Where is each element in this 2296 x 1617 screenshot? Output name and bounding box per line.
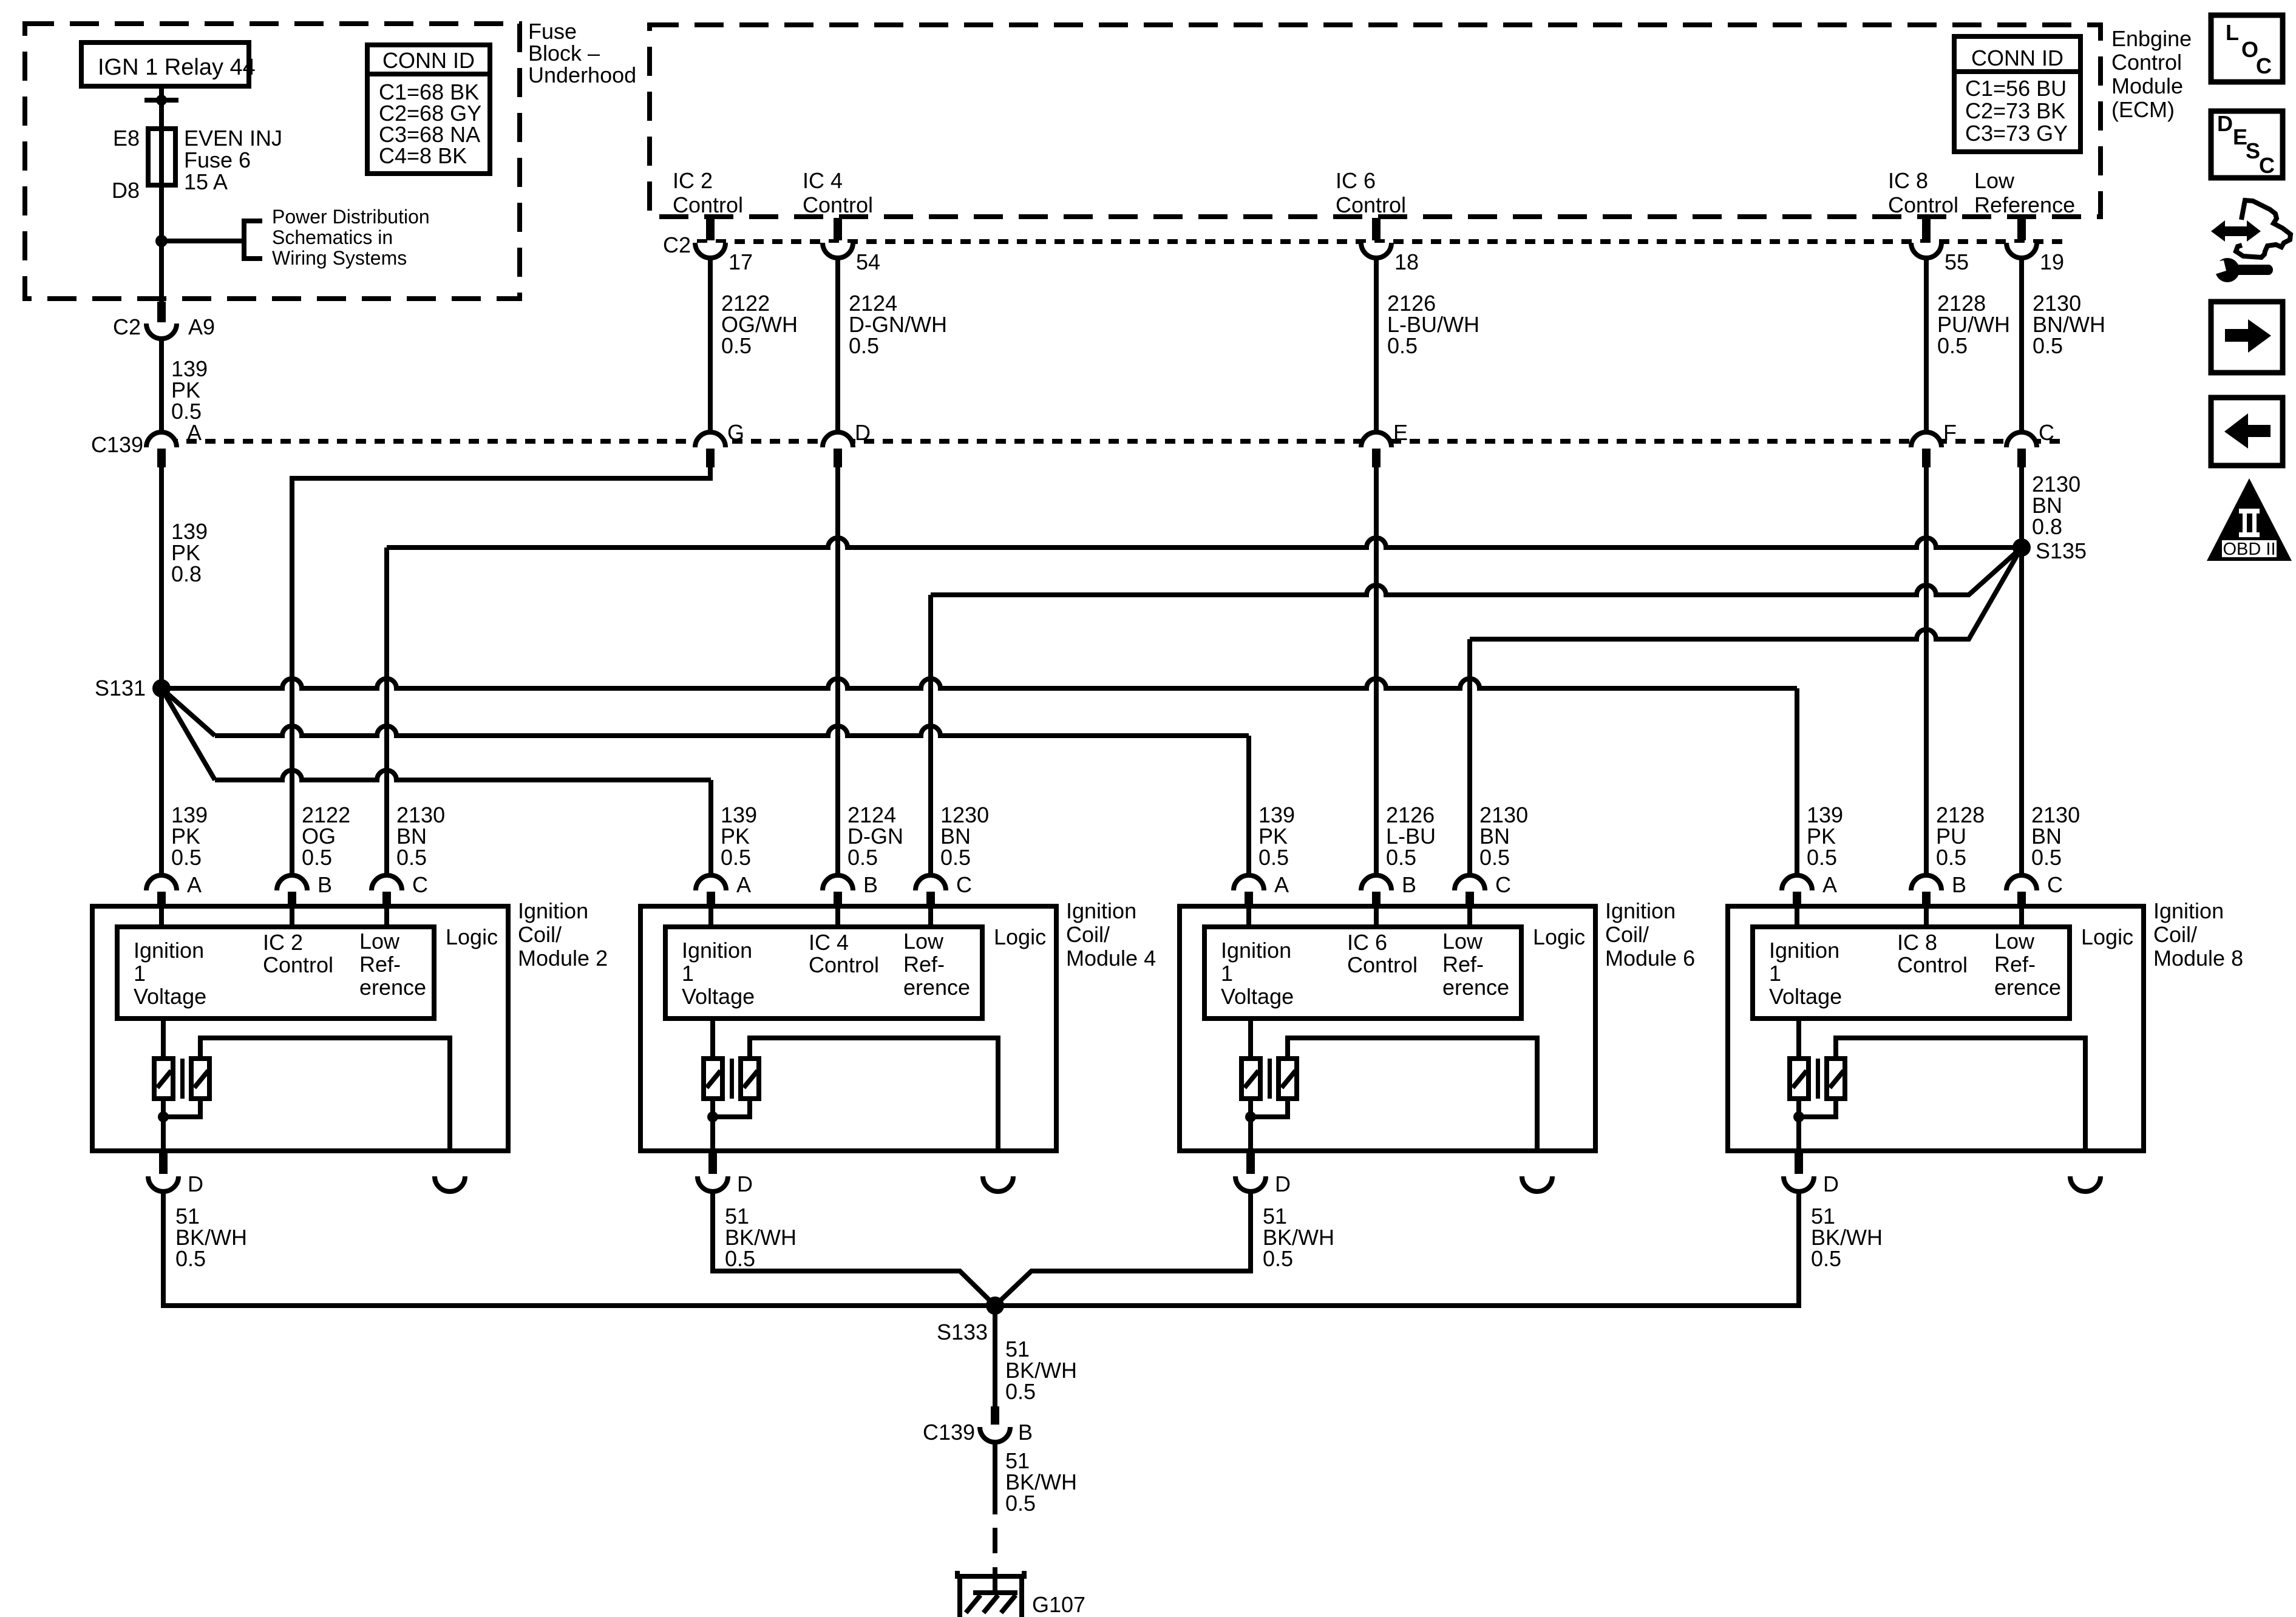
svg-text:Control: Control [1897,952,1968,977]
wire label 139 PK 0.5 at module 6 pin A [1258,802,1295,870]
wire 51 BK/WH (module 2 D / module 8 D bus to S133) [163,1191,1799,1306]
bracket: power distribution reference [244,221,262,259]
svg-text:Control: Control [1347,952,1418,977]
svg-text:Ignition: Ignition [1605,898,1676,923]
module 2 pin D [148,1153,203,1196]
module 6 pin C [1455,872,1511,906]
label: Ignition Coil/Module 2 [518,898,608,971]
wire: bar through fuse to junction [159,100,164,302]
wire 2130 BN (S135 to module 6 pin C) [1470,547,2022,876]
svg-text:B: B [1018,1420,1033,1445]
svg-text:0.5: 0.5 [1387,333,1418,358]
ECM connector C2 pin 54 [823,218,880,274]
wire label 2126 L-BU 0.5 at module 6 pin B [1386,802,1436,870]
svg-text:S133: S133 [937,1320,988,1344]
module 6 logic box [1204,927,1521,1019]
svg-text:B: B [1952,872,1966,897]
svg-text:IC 8: IC 8 [1897,930,1937,955]
svg-text:Underhood: Underhood [528,63,636,87]
module 4 coil secondary winding [741,1059,759,1099]
svg-text:Ignition: Ignition [1769,938,1839,963]
wire label 139 PK 0.5 at module 2 pin A [171,802,208,870]
ECM (Engine Control Module) dashed box [650,25,2101,217]
svg-text:0.5: 0.5 [302,845,332,870]
svg-text:Control: Control [1336,192,1406,217]
module 6 pin B [1361,872,1416,906]
wire 51 BK/WH (S133 to C139 B) [995,1306,1077,1406]
connector C139 pin G [695,420,744,467]
svg-text:Module 4: Module 4 [1066,946,1156,971]
svg-text:Voltage: Voltage [1769,984,1842,1009]
svg-text:Low: Low [359,929,400,954]
svg-text:D: D [855,420,871,445]
module 6 coil primary winding [1241,1019,1260,1099]
svg-text:C4=8 BK: C4=8 BK [379,143,467,168]
svg-text:D: D [737,1171,753,1196]
svg-text:B: B [863,872,878,897]
module 8 coil common junction [1793,1099,1836,1151]
fuse block underhood (dashed box) [25,24,520,299]
svg-text:0.5: 0.5 [1263,1246,1293,1271]
module 2 secondary return wire [200,1038,450,1151]
svg-text:0.5: 0.5 [175,1246,206,1271]
svg-text:0.5: 0.5 [721,333,752,358]
wire: junction to bracket [161,239,243,243]
svg-text:CONN ID: CONN ID [382,48,475,73]
svg-text:C: C [412,872,428,897]
svg-text:0.5: 0.5 [849,333,879,358]
connector row C2 (ECM) dotted line [663,232,2064,257]
svg-text:Enbgine: Enbgine [2111,26,2192,51]
svg-text:C: C [2259,153,2275,178]
svg-text:IC 2: IC 2 [263,930,303,955]
svg-text:17: 17 [729,249,753,274]
module 4 secondary output terminal [983,1176,1013,1192]
svg-text:Control: Control [803,192,873,217]
svg-text:A: A [187,420,202,445]
wire 2128 PU/WH 0.5 (ECM to C139) [1926,257,2010,433]
module 2 pin A [146,872,202,906]
svg-text:Ref-: Ref- [1442,952,1484,977]
wire label 139 PK 0.5 at module 4 pin A [721,802,757,870]
connector C139 pin C [2006,420,2054,467]
ignition coil module 2 (outer box) [92,906,508,1151]
icon: back arrow box [2211,398,2283,466]
ECM connector C2 pin 17 [695,218,753,274]
svg-text:1: 1 [134,961,146,986]
svg-text:Reference: Reference [1974,192,2075,217]
svg-text:IC 6: IC 6 [1336,168,1376,193]
svg-text:1: 1 [1769,961,1781,986]
module 2 coil primary winding [154,1019,173,1099]
splice S133 [937,1297,1004,1344]
svg-text:Logic: Logic [2081,924,2133,949]
svg-text:S135: S135 [2036,538,2087,563]
svg-text:Coil/: Coil/ [1066,922,1110,947]
svg-text:A: A [736,872,751,897]
wire 139 PK (S131 to module 6 pin A) [161,688,1249,876]
junction node (power distribution tap) [155,235,168,247]
wire 51 BK/WH (module 6 D to S133) [995,1191,1251,1306]
svg-text:(ECM): (ECM) [2111,97,2175,122]
svg-text:EVEN INJ: EVEN INJ [184,126,282,151]
svg-text:C3=73 GY: C3=73 GY [1965,121,2068,146]
wire 139 PK (S131 to module 4 pin A) [161,688,711,876]
ignition coil module 4 (outer box) [640,906,1056,1151]
connector C139 pin A [146,420,202,467]
label: Ignition Coil/Module 4 [1066,898,1156,971]
module 8 internal pin feed wires [1797,906,2022,927]
label: Ignition Coil/Module 6 [1605,898,1695,971]
svg-text:erence: erence [903,975,970,1000]
wire label 2122 OG 0.5 at module 2 pin B [302,802,350,870]
module 8 secondary return wire [1836,1038,2085,1151]
module 6 coil common junction [1245,1099,1288,1151]
wire 2130 BN (S135 to module 4 pin C) [931,547,2022,876]
svg-text:Voltage: Voltage [134,984,206,1009]
svg-text:0.5: 0.5 [1258,845,1289,870]
svg-text:0.5: 0.5 [940,845,971,870]
svg-text:Module 8: Module 8 [2153,946,2243,971]
svg-text:Fuse: Fuse [528,19,577,44]
svg-text:L: L [2226,20,2239,45]
svg-text:IC 8: IC 8 [1888,168,1928,193]
svg-text:IGN 1 Relay 44: IGN 1 Relay 44 [98,55,256,80]
connector C139 pin D [823,420,871,467]
fuse F6 (EVEN INJ Fuse 6 15 A) [112,126,282,203]
module 8 pin B [1911,872,1966,906]
svg-text:erence: erence [1994,975,2061,1000]
module 4 logic box [665,927,982,1019]
module 2 coil core [180,1059,185,1099]
svg-text:D: D [188,1171,203,1196]
wire 2130 BN (S135 to module 2 pin C) [387,538,2022,876]
connector C139 pin F [1911,420,1957,467]
module 8 pin C [2006,872,2063,906]
svg-text:0.8: 0.8 [171,561,202,586]
svg-text:Module 6: Module 6 [1605,946,1695,971]
connector C139 pin E [1361,420,1408,467]
ECM connector C2 pin 18 [1361,218,1419,274]
svg-text:Voltage: Voltage [682,984,755,1009]
wire 2128 PU (C139 F to module 8 pin B) [1924,467,1929,876]
svg-text:19: 19 [2040,249,2064,274]
icon: OBD II triangle [2207,478,2292,561]
wire 2126 L-BU/WH 0.5 (ECM to C139) [1376,257,1479,433]
svg-text:0.5: 0.5 [1811,1246,1841,1271]
wire label 51 BK/WH 0.5 at module 8 pin D [1811,1204,1883,1271]
svg-text:Ignition: Ignition [1066,898,1136,923]
svg-text:Low: Low [1442,929,1483,954]
module 2 pin C [372,872,428,906]
wire 139 PK 0.5 (fuse block to C139) [161,338,208,433]
module 8 secondary output terminal [2070,1176,2101,1192]
module 2 coil secondary winding [191,1059,209,1099]
svg-text:C1=56 BU: C1=56 BU [1965,76,2067,101]
ignition coil module 6 (outer box) [1180,906,1595,1151]
svg-text:18: 18 [1394,249,1419,274]
wire label 2124 D-GN 0.5 at module 4 pin B [847,802,903,870]
svg-text:S131: S131 [95,676,146,700]
svg-text:Logic: Logic [994,924,1046,949]
module 6 coil core [1268,1059,1272,1099]
svg-text:erence: erence [1442,975,1509,1000]
module 8 coil core [1816,1059,1820,1099]
module 2 internal pin feed wires [161,906,387,927]
svg-text:S: S [2246,138,2260,163]
relay: IGN 1 Relay 44 [81,42,256,86]
svg-text:Module 2: Module 2 [518,946,608,971]
wire 2124 D-GN (C139 D to module 4 pin B) [835,467,840,876]
svg-text:Block –: Block – [528,41,600,66]
module 4 secondary return wire [750,1038,998,1151]
svg-text:0.5: 0.5 [1479,845,1510,870]
ignition coil module 8 (outer box) [1728,906,2144,1151]
svg-text:G107: G107 [1032,1592,1085,1617]
svg-text:Fuse 6: Fuse 6 [184,147,251,172]
wire 2130 BN (C139 C through S135 to module 8 pin C) [2022,467,2080,876]
module 4 coil common junction [707,1099,750,1151]
svg-text:Ref-: Ref- [1994,952,2036,977]
conn id table (ECM) [1954,36,2080,152]
svg-text:D: D [1275,1171,1291,1196]
svg-text:Ignition: Ignition [682,938,752,963]
module 8 coil secondary winding [1827,1059,1845,1099]
module 6 pin D [1235,1153,1291,1196]
module 2 logic box [117,927,434,1019]
svg-text:0.5: 0.5 [1005,1379,1036,1404]
svg-text:0.5: 0.5 [1386,845,1416,870]
svg-text:C139: C139 [923,1420,975,1445]
wire 2122 OG/WH 0.5 (ECM to C139) [710,257,798,433]
wire 2126 L-BU (C139 E to module 6 pin B) [1374,467,1379,876]
svg-text:OBD II: OBD II [2223,540,2275,559]
svg-text:B: B [1402,872,1416,897]
svg-text:Ref-: Ref- [359,952,401,977]
module 6 coil secondary winding [1279,1059,1297,1099]
svg-text:C: C [2256,53,2272,78]
svg-text:Logic: Logic [1533,924,1585,949]
svg-text:E: E [1393,420,1408,445]
svg-text:0.5: 0.5 [2033,333,2063,358]
svg-text:0.5: 0.5 [721,845,751,870]
svg-text:Coil/: Coil/ [518,922,562,947]
wire label 2130 BN 0.5 at module 2 pin C [396,802,445,870]
label: Fuse Block - Underhood [528,19,636,87]
svg-text:1: 1 [682,961,694,986]
svg-text:Coil/: Coil/ [1605,922,1649,947]
svg-text:A: A [187,872,202,897]
conn id table (fuse block) [367,45,490,174]
svg-text:C: C [1495,872,1511,897]
ECM connector C2 pin 55 [1911,218,1969,274]
svg-text:IC 2: IC 2 [673,168,713,193]
wire 139 PK (S131 to module 8 pin A) [161,679,1797,876]
svg-text:F: F [1943,420,1957,445]
svg-text:Schematics in: Schematics in [272,226,393,248]
svg-text:C2=73 BK: C2=73 BK [1965,98,2065,123]
module 2 pin B [277,872,332,906]
module 6 secondary return wire [1288,1038,1537,1151]
svg-text:Low: Low [1974,168,2015,193]
wire label 51 BK/WH 0.5 at module 4 pin D [725,1204,796,1271]
svg-text:0.5: 0.5 [1807,845,1837,870]
wire label 1230 BN 0.5 at module 4 pin C [940,802,989,870]
svg-text:C2: C2 [113,314,141,339]
svg-text:erence: erence [359,975,426,1000]
wire 51 BK/WH (C139 B to G107) [995,1442,1077,1553]
svg-text:A9: A9 [188,314,215,339]
splice S135 [2012,538,2087,563]
icon: service info (double arrow, outline, wrench) [2210,200,2291,282]
svg-text:54: 54 [856,249,880,274]
svg-text:Control: Control [809,952,879,977]
svg-text:IC 4: IC 4 [809,930,849,955]
svg-text:Ignition: Ignition [2153,898,2224,923]
svg-text:IC 6: IC 6 [1347,930,1387,955]
module 4 coil primary winding [704,1019,722,1099]
module 4 pin C [915,872,972,906]
label: Enbgine Control Module (ECM) [2111,26,2192,122]
relay contact bar [144,95,178,106]
module 8 coil primary winding [1790,1019,1809,1099]
module 4 pin B [823,872,878,906]
svg-text:Control: Control [1888,192,1958,217]
svg-text:0.5: 0.5 [396,845,427,870]
svg-text:C: C [2039,420,2054,445]
svg-text:Ignition: Ignition [134,938,204,963]
wire label 51 BK/WH 0.5 at module 2 pin D [175,1204,247,1271]
svg-text:D: D [2217,111,2233,136]
svg-text:Control: Control [263,952,333,977]
module 4 pin A [696,872,751,906]
svg-text:Ignition: Ignition [1221,938,1291,963]
wire 2130 BN/WH 0.5 (ECM to C139) [2022,257,2105,433]
svg-text:15 A: 15 A [184,169,228,194]
wire label 51 BK/WH 0.5 at module 6 pin D [1263,1204,1334,1271]
svg-text:Wiring Systems: Wiring Systems [272,247,407,269]
svg-text:0.5: 0.5 [1936,845,1966,870]
svg-text:Power Distribution: Power Distribution [272,206,430,228]
svg-text:IC 4: IC 4 [803,168,843,193]
svg-text:Ref-: Ref- [903,952,945,977]
svg-text:C: C [2047,872,2063,897]
wire label 2130 BN 0.5 at module 6 pin C [1479,802,1528,870]
svg-text:B: B [318,872,332,897]
module 4 coil core [730,1059,734,1099]
connector row C139 dotted line [91,432,2061,457]
wire: relay to contact bar [159,86,164,99]
wire 2122 OG (C139 G to module 2 pin B) [292,467,710,876]
svg-text:Module: Module [2111,73,2183,98]
module 6 pin A [1234,872,1289,906]
svg-text:0.5: 0.5 [2031,845,2062,870]
svg-text:D8: D8 [112,178,140,203]
svg-text:Logic: Logic [446,924,498,949]
svg-text:Coil/: Coil/ [2153,922,2197,947]
icon: LOC box [2211,15,2283,82]
module 6 internal pin feed wires [1249,906,1470,927]
svg-text:Low: Low [903,929,944,954]
svg-text:1: 1 [1221,961,1233,986]
module 8 logic box [1753,927,2070,1019]
svg-text:0.5: 0.5 [847,845,878,870]
connector C2 pin A9 [113,302,215,339]
note: Power Distribution Schematics in Wiring Systems [272,206,430,269]
module 8 pin D [1784,1153,1839,1196]
svg-text:0.5: 0.5 [725,1246,755,1271]
svg-text:C: C [956,872,972,897]
svg-text:0.5: 0.5 [1937,333,1968,358]
svg-text:CONN ID: CONN ID [1971,46,2063,70]
icon: DESC box [2211,111,2283,178]
ECM connector C2 pin 19 [2006,218,2064,274]
ground G107 [957,1567,1085,1617]
svg-text:C2: C2 [663,232,691,257]
svg-text:E8: E8 [113,126,140,151]
svg-text:A: A [1274,872,1289,897]
module 6 secondary output terminal [1522,1176,1552,1192]
svg-text:Control: Control [673,192,743,217]
wire label 2130 BN 0.5 at module 8 pin C [2031,802,2080,870]
label: Ignition Coil/Module 8 [2153,898,2243,971]
svg-text:G: G [727,420,744,445]
connector C139 pin B [923,1406,1033,1445]
ECM output labels [673,168,743,217]
svg-text:C139: C139 [91,432,143,457]
wire 2124 D-GN/WH 0.5 (ECM to C139) [838,257,947,433]
svg-text:Ignition: Ignition [518,898,588,923]
module 2 coil common junction [158,1099,200,1151]
svg-text:55: 55 [1944,249,1969,274]
svg-text:A: A [1822,872,1837,897]
wire label 139 PK 0.5 at module 8 pin A [1807,802,1843,870]
svg-text:Low: Low [1994,929,2035,954]
wire label 2128 PU 0.5 at module 8 pin B [1936,802,1985,870]
module 4 internal pin feed wires [711,906,931,927]
svg-text:Control: Control [2111,50,2182,75]
wire 51 BK/WH (module 4 D to S133) [713,1191,995,1306]
icon: forward arrow box [2211,302,2283,373]
module 4 pin D [698,1153,753,1196]
module 2 secondary output terminal [435,1176,465,1192]
wire 139 PK 0.8 (C139 A to S131) [161,467,208,876]
svg-text:0.5: 0.5 [171,845,202,870]
svg-text:0.8: 0.8 [2032,514,2062,539]
splice S131 [95,676,171,700]
module 8 pin A [1782,872,1837,906]
svg-text:D: D [1823,1171,1839,1196]
svg-text:Voltage: Voltage [1221,984,1294,1009]
svg-text:0.5: 0.5 [1005,1491,1036,1516]
